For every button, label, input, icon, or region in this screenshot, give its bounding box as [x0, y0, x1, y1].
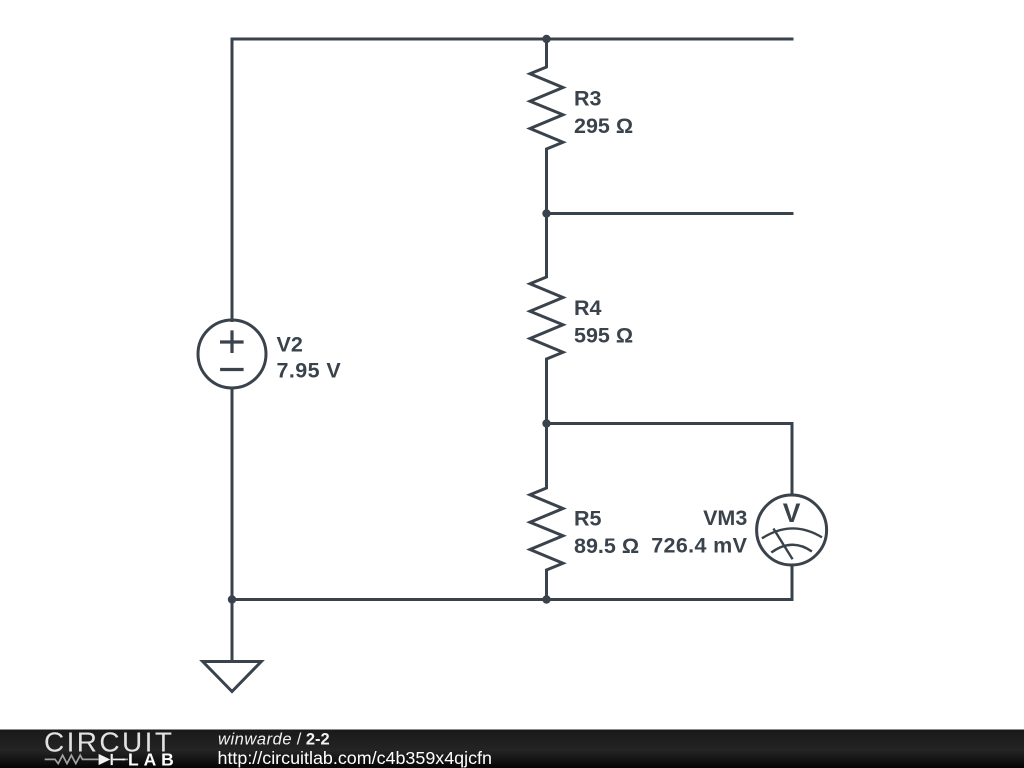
svg-text:http://circuitlab.com/c4b359x4: http://circuitlab.com/c4b359x4qjcfn: [218, 748, 492, 768]
resistor R3: [530, 39, 563, 214]
node bottom center junction: [542, 595, 550, 603]
svg-text:winwarde / 2-2: winwarde / 2-2: [218, 731, 330, 749]
voltmeter VM3: [757, 495, 827, 565]
wire middle rail (R3-R4 junction to right): [547, 212, 793, 215]
wire voltmeter bottom lead: [791, 565, 794, 600]
svg-text:89.5 Ω: 89.5 Ω: [574, 534, 639, 558]
svg-text:R3: R3: [574, 86, 602, 110]
svg-text:726.4 mV: 726.4 mV: [651, 534, 747, 558]
wire V2 bottom lead: [231, 388, 234, 600]
CircuitLab logo resistor squiggle wire: [45, 755, 128, 763]
svg-text:VM3: VM3: [703, 506, 747, 530]
svg-text:595 Ω: 595 Ω: [574, 323, 633, 347]
wire bottom rail: [232, 598, 792, 601]
svg-text:LAB: LAB: [128, 749, 179, 768]
wire third rail (R4-R5 junction to voltmeter): [547, 424, 793, 496]
svg-text:295 Ω: 295 Ω: [574, 114, 633, 138]
svg-text:R5: R5: [574, 507, 602, 531]
node middle junction: [542, 209, 550, 217]
node bottom left junction: [228, 595, 236, 603]
node third junction: [542, 419, 550, 427]
svg-text:R4: R4: [574, 296, 602, 320]
ground: [203, 600, 262, 692]
wire V2 top lead: [231, 39, 234, 321]
node top junction: [542, 35, 550, 43]
CircuitLab logo diode symbol: [99, 754, 126, 765]
resistor R5: [530, 424, 563, 600]
voltage source V2: [198, 320, 266, 388]
wire top rail: [232, 38, 792, 41]
svg-text:V2: V2: [277, 332, 303, 356]
footer bar: [0, 730, 1024, 768]
resistor R4: [530, 214, 563, 424]
svg-text:7.95 V: 7.95 V: [277, 359, 342, 383]
svg-text:V: V: [783, 498, 801, 528]
